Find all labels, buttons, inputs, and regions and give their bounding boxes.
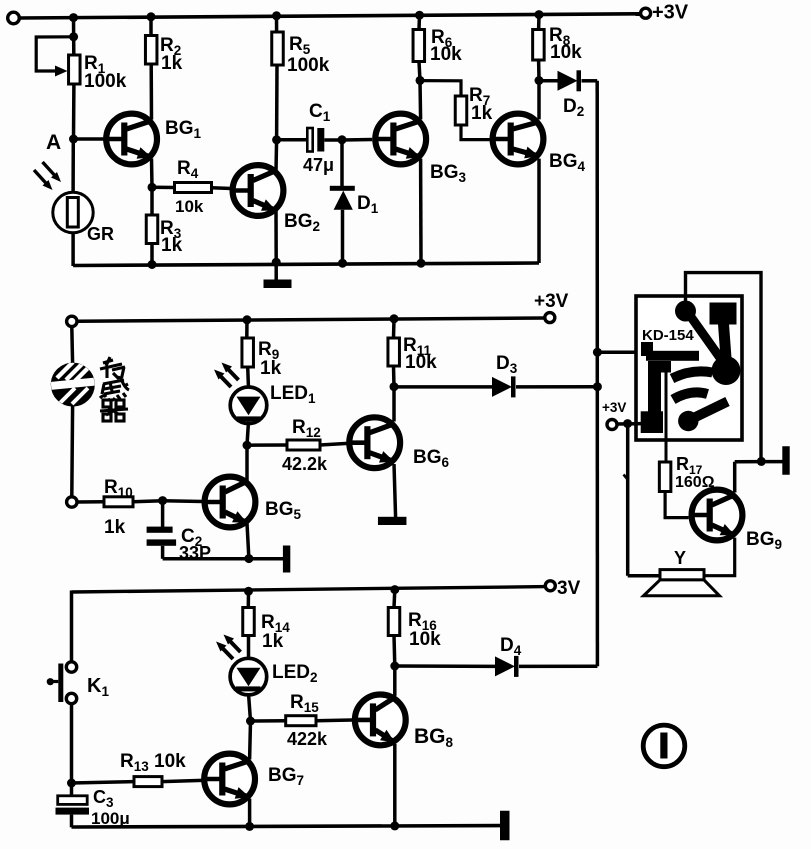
wire R4 to BG2 base	[212, 186, 232, 190]
svg-text:10k: 10k	[175, 197, 204, 216]
wire R7 to BG4 base	[461, 125, 490, 140]
wire R11 to node	[392, 366, 396, 387]
svg-text:1k: 1k	[262, 631, 284, 652]
ground (bottom, chassis bar)	[500, 811, 510, 841]
svg-text:42.2k: 42.2k	[282, 454, 328, 474]
transistor BG7	[204, 754, 255, 805]
transistor BG9	[692, 490, 743, 541]
node K1/C3/R13	[67, 779, 76, 788]
ground (middle section)	[249, 557, 283, 561]
terminal +3V (middle-right)	[545, 313, 555, 323]
resistor R6 10k	[417, 15, 421, 29]
potentiometer R1 100k	[69, 32, 78, 41]
label sensor (Chinese 传感器)	[100, 357, 129, 421]
IC module KD-154 (chip-on-board)	[636, 296, 742, 440]
svg-text:+3V: +3V	[534, 291, 569, 312]
resistor R9 1k	[245, 320, 249, 338]
wire BG7 emitter	[248, 799, 252, 827]
node R16/D4/BG8	[390, 662, 399, 671]
resistor R12 42.2k	[247, 443, 287, 447]
wire BG8 collector	[393, 666, 397, 696]
resistor R7 1k	[420, 81, 461, 96]
+3V rail (top)	[19, 14, 642, 18]
wire R15 to BG8 base	[316, 718, 352, 722]
resistor R3 1k	[150, 187, 154, 215]
resistor R8 10k	[537, 15, 541, 30]
wire BG7 collector	[248, 721, 252, 759]
wire BG5 collector	[245, 445, 249, 480]
transistor BG1	[106, 114, 157, 165]
node +3V/speaker branch	[623, 419, 632, 428]
pin wire KD-154 top to ground bus	[686, 273, 762, 462]
diode D1	[340, 140, 344, 187]
wire to BG5 base	[163, 499, 203, 503]
svg-text:Y: Y	[674, 548, 686, 568]
wire R12 to BG6 base	[320, 443, 348, 445]
resistor R15 422k	[251, 719, 286, 723]
resistor R5 100k	[275, 16, 279, 32]
speaker Y	[660, 570, 704, 580]
svg-text:KD-154: KD-154	[642, 327, 694, 344]
node BG1 emitter/R3/R4	[148, 183, 157, 192]
tick on +3V wire	[624, 475, 628, 480]
terminal (top-left)	[8, 12, 20, 24]
wire R3 to ground rail	[150, 244, 154, 265]
wire R14 to LED2	[247, 636, 251, 660]
resistor R11 10k	[392, 319, 396, 338]
node C1/R5/BG2 collector	[272, 135, 281, 144]
node R10/C2/BG5 base	[158, 496, 167, 505]
wire BG9 collector to ground	[735, 460, 783, 464]
LED2	[230, 658, 267, 695]
wire R6 to node	[419, 62, 420, 81]
svg-text:A: A	[46, 131, 61, 154]
ground (BG6)	[378, 517, 407, 525]
wire GR to bottom rail	[71, 233, 75, 266]
wire BG1 emitter to node	[150, 159, 154, 188]
wire BG6 emitter to ground	[394, 464, 396, 518]
wire D1 to ground rail	[341, 210, 345, 264]
svg-text:+3V: +3V	[652, 2, 689, 24]
wire +3V to KD pad	[617, 422, 642, 426]
svg-text:1k: 1k	[260, 358, 282, 379]
capacitor C1 47u	[277, 138, 308, 142]
wire BG3 emitter to rail	[419, 159, 423, 264]
wire R17 to BG9 base	[665, 492, 689, 518]
resistor R2 1k	[149, 17, 153, 36]
+3V rail (middle)	[77, 318, 545, 321]
node A	[69, 135, 78, 144]
resistor R4 10k	[152, 186, 175, 190]
wire to speaker left	[628, 574, 660, 578]
resistor R14 1k	[247, 591, 251, 607]
switch K1	[66, 662, 76, 672]
transistor BG4	[493, 114, 544, 165]
terminal +3V (top-right)	[641, 8, 651, 18]
node BG5 emitter	[244, 554, 253, 563]
terminal 3V (bottom-right)	[545, 581, 555, 591]
svg-text:10k: 10k	[550, 42, 582, 63]
wire BG9 collector up	[733, 462, 737, 493]
node bus/KD pin	[593, 348, 602, 357]
node R6/R7/BG3 collector	[416, 76, 425, 85]
wire R8 to node	[537, 60, 541, 81]
capacitor C3 100u	[70, 783, 74, 796]
wire R16 to node	[392, 636, 396, 667]
wire BG4 emitter to rail end	[537, 159, 541, 263]
wire R5 to C1 node	[275, 65, 279, 140]
transistor BG8	[355, 695, 406, 746]
svg-text:1k: 1k	[471, 103, 493, 124]
transistor BG6	[349, 417, 400, 468]
resistor R13 10k	[72, 782, 135, 783]
node R8/D2/BG4 collector	[535, 76, 544, 85]
LED1	[230, 387, 267, 424]
wire BG5 emitter	[247, 523, 249, 558]
wire BG9 emitter to speaker	[704, 538, 735, 576]
LED2 light arrows	[220, 645, 234, 659]
ground (top section)	[274, 262, 278, 281]
resistor R17 160ohm	[659, 462, 671, 492]
diode D3	[394, 385, 492, 389]
wire node A to GR	[71, 139, 75, 193]
node C1/D1/BG3 base	[338, 135, 347, 144]
svg-text:10k: 10k	[430, 44, 462, 65]
svg-text:1k: 1k	[104, 517, 126, 538]
wire C2 to ground	[163, 557, 249, 561]
transistor BG3	[375, 114, 426, 165]
wire BG4 collector	[537, 81, 541, 120]
wire base BG1	[74, 137, 107, 141]
wire BG6 collector	[392, 387, 396, 422]
transistor BG2	[233, 165, 284, 216]
svg-text:1k: 1k	[161, 53, 183, 74]
transistor BG5	[205, 477, 256, 528]
node D3/bus	[593, 382, 602, 391]
wire BG3 collector	[418, 80, 422, 119]
ground rail (top section)	[73, 263, 539, 266]
wire R13 to BG7 base	[162, 780, 202, 781]
terminal (sensor bottom)	[67, 497, 77, 507]
sensor (microphone)	[50, 362, 96, 405]
svg-text:422k: 422k	[287, 729, 328, 749]
svg-text:+3V: +3V	[602, 400, 626, 415]
pin wire KD-154 output to R17	[665, 362, 668, 462]
diode D2	[539, 79, 558, 83]
wire R9 to LED1	[246, 367, 250, 389]
diode D4	[395, 664, 495, 668]
svg-text:100k: 100k	[287, 55, 330, 76]
resistor R16 10k	[392, 590, 396, 608]
wire D4 to bus	[519, 664, 597, 668]
figure number (1) circled	[643, 725, 685, 767]
ground rail (bottom)	[72, 826, 501, 827]
wire K1 to node	[70, 704, 74, 784]
resistor R10 1k	[77, 500, 104, 504]
light arrows into GR	[34, 170, 49, 187]
wire sensor top	[70, 327, 74, 364]
node LED1/R12/BG5	[243, 441, 252, 450]
svg-text:10k: 10k	[409, 629, 441, 650]
node: rail junctions	[69, 13, 78, 22]
svg-text:R13 10k: R13 10k	[120, 751, 186, 774]
svg-text:1k: 1k	[161, 235, 183, 256]
svg-text:3V: 3V	[557, 578, 581, 599]
wire rail to K1	[70, 591, 74, 663]
wire BG2 emitter to rail	[274, 210, 278, 263]
wire R10 to node	[133, 501, 163, 502]
svg-text:100k: 100k	[84, 71, 127, 92]
wire R2 to BG1 collector	[149, 64, 153, 120]
wire BG8 emitter	[393, 744, 397, 826]
3V rail (bottom)	[72, 587, 546, 592]
svg-text:47μ: 47μ	[303, 155, 334, 175]
bus wire D2/D3/D4 vertical	[595, 81, 599, 667]
ground (right, chassis bar)	[782, 446, 789, 475]
wire BG2 collector	[274, 140, 278, 171]
svg-text:10k: 10k	[405, 352, 437, 373]
photoresistor GR	[53, 192, 93, 232]
wire D2 to bus line	[582, 79, 598, 83]
wire +3V down to speaker	[626, 424, 630, 576]
wire sensor bottom	[70, 406, 74, 497]
node R11/D3/BG6	[390, 382, 399, 391]
wire R1 top	[72, 18, 76, 55]
wire R1 to node A	[72, 84, 76, 139]
wire to BG3 base	[342, 138, 372, 142]
wire bus to KD-154 input pad	[597, 350, 642, 354]
LED1 light arrows	[218, 373, 232, 387]
capacitor C2 33P	[161, 501, 165, 527]
svg-text:GR: GR	[87, 224, 114, 244]
wire D3 to bus	[516, 385, 597, 389]
terminal +3V (KD supply)	[607, 420, 617, 430]
node ground junction	[757, 457, 766, 466]
node LED2/R15/BG7	[246, 717, 255, 726]
terminal (middle-left)	[67, 316, 77, 326]
